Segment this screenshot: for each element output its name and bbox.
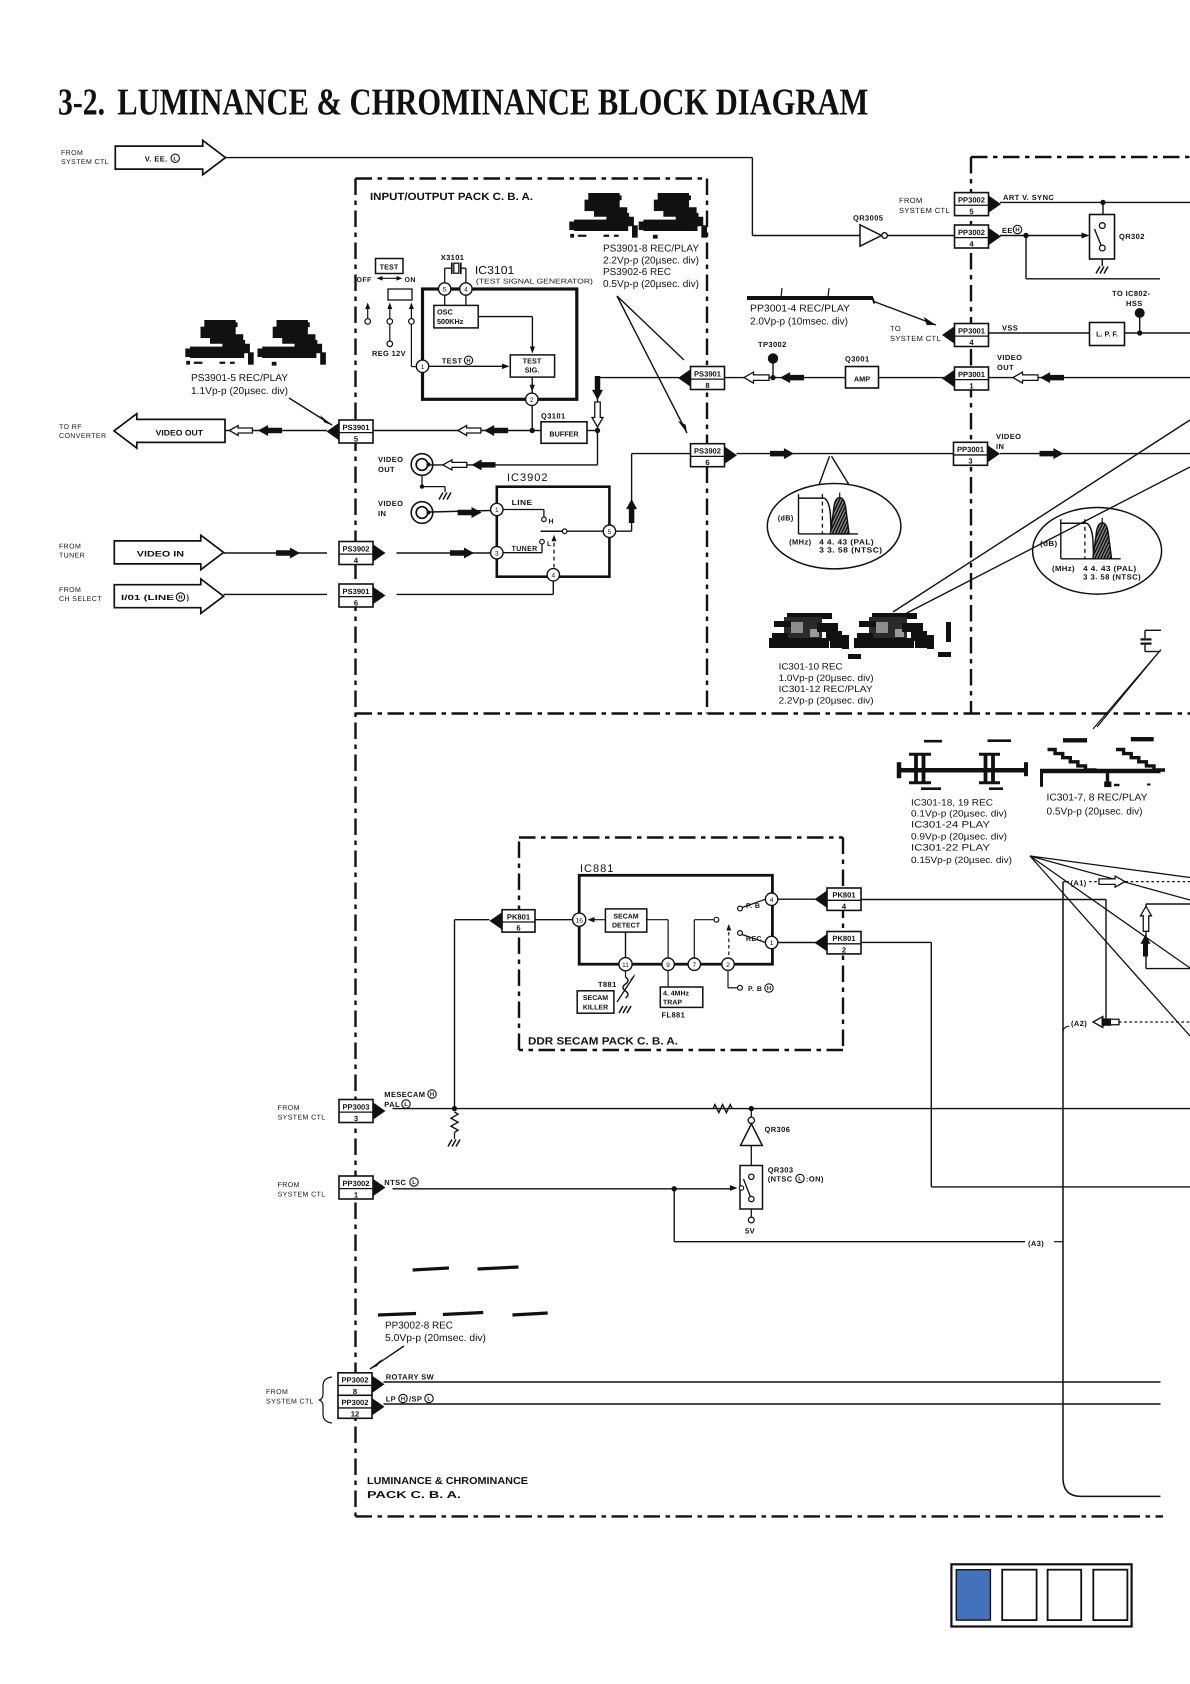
white arrow left A2 — [1093, 1017, 1119, 1028]
pin 1 IC881 — [765, 936, 777, 948]
wire pin2 to P.B(H) — [727, 971, 729, 988]
wire PS3902-4 to pin3 — [397, 552, 491, 554]
pin 5 IC3101 — [439, 283, 451, 295]
wire sd to pin9 — [647, 919, 668, 921]
pin 1 IC3902 — [491, 503, 503, 515]
svg-text:DDR SECAM PACK C. B. A.: DDR SECAM PACK C. B. A. — [528, 1036, 678, 1048]
connector PS3901 pin 5 — [327, 423, 340, 440]
junction dot QR306 — [749, 1106, 754, 1111]
svg-text:DETECT: DETECT — [612, 923, 641, 930]
svg-text:VIDEO: VIDEO — [997, 353, 1022, 362]
svg-text:IN: IN — [378, 509, 386, 518]
svg-text:ON: ON — [405, 277, 416, 284]
nav bar outline — [951, 1564, 1131, 1626]
wire pin1 to PK801-2 — [778, 942, 827, 944]
diagonal callout line a — [893, 420, 1190, 612]
svg-text:VIDEO: VIDEO — [378, 455, 403, 464]
svg-text:PACK C. B. A.: PACK C. B. A. — [367, 1490, 461, 1501]
wire V.EE to QR3005 — [224, 157, 752, 159]
svg-text:IN: IN — [996, 442, 1004, 451]
black arrow left row430 b — [484, 425, 508, 436]
nav square 3 — [1048, 1570, 1082, 1620]
pin 4 IC881 — [765, 893, 777, 905]
pin 1 IC3101 — [416, 360, 428, 372]
junction dot art v.sync — [1100, 200, 1105, 205]
black arrow left row430 a — [258, 425, 282, 436]
svg-text:PP3001: PP3001 — [958, 326, 986, 335]
svg-text:L: L — [173, 156, 177, 162]
inverter QR306 — [750, 1109, 752, 1117]
waveform dashes row1 — [413, 1268, 449, 1270]
svg-text:2: 2 — [842, 945, 846, 954]
svg-text:CH SELECT: CH SELECT — [59, 596, 102, 603]
svg-text:X3101: X3101 — [441, 253, 465, 262]
black arrow left row377 b — [1040, 372, 1064, 383]
capacitor (right edge) — [1145, 629, 1161, 631]
svg-text:6: 6 — [705, 458, 709, 467]
svg-text:H: H — [1015, 228, 1019, 234]
secam killer box — [577, 991, 614, 1013]
svg-text:TEST: TEST — [523, 357, 542, 366]
ground below QR302 — [1101, 259, 1103, 266]
connector PP3002 pin 8 — [372, 1376, 385, 1393]
wire PAL row — [393, 1108, 1190, 1110]
wire pin4 to PK801-4 — [778, 898, 827, 900]
svg-text:H: H — [401, 1397, 405, 1403]
svg-text:H: H — [178, 595, 182, 601]
svg-text:L: L — [404, 1102, 408, 1108]
svg-text:SYSTEM CTL: SYSTEM CTL — [61, 159, 109, 166]
capacitor callout lines — [1093, 653, 1158, 729]
junction dot TP3002 — [770, 375, 775, 380]
svg-text:CONVERTER: CONVERTER — [59, 433, 106, 440]
svg-text:2: 2 — [726, 962, 730, 969]
svg-text:FL881: FL881 — [662, 1011, 686, 1020]
5V supply — [750, 1209, 752, 1217]
ic box IC881 — [579, 875, 772, 964]
svg-text:PS3901: PS3901 — [342, 423, 370, 432]
svg-text:5.0Vp-p (20msec. div): 5.0Vp-p (20msec. div) — [385, 1333, 486, 1344]
svg-text:IC301-12 REC/PLAY: IC301-12 REC/PLAY — [779, 684, 873, 694]
svg-text:4: 4 — [464, 287, 468, 294]
nav square blue — [956, 1570, 990, 1620]
svg-text:H: H — [767, 986, 771, 992]
svg-text:PS3902: PS3902 — [694, 447, 721, 456]
junction dot to IC802 — [1137, 330, 1142, 335]
pin 5 IC3902 — [603, 525, 615, 537]
svg-text:PP3002: PP3002 — [958, 195, 985, 204]
svg-text:0.15Vp-p (20µsec. div): 0.15Vp-p (20µsec. div) — [911, 855, 1012, 865]
svg-text:INPUT/OUTPUT PACK C. B. A.: INPUT/OUTPUT PACK C. B. A. — [370, 191, 533, 203]
wire buffer to junction — [587, 430, 598, 432]
wire PS3901-8 to vertical — [598, 377, 680, 379]
wire with up arrows (right) — [1145, 904, 1147, 969]
svg-text:LP: LP — [386, 1395, 396, 1404]
wire pin16 to PK801-6 — [535, 919, 573, 921]
svg-text:4. 4MHz: 4. 4MHz — [663, 991, 690, 998]
svg-text:V. EE.: V. EE. — [145, 155, 168, 164]
svg-text:3 3. 58 (NTSC): 3 3. 58 (NTSC) — [1083, 573, 1141, 582]
wire EE to QR302 — [1000, 235, 1082, 237]
wire video out row — [724, 377, 1190, 379]
svg-text:/SP: /SP — [409, 1395, 422, 1404]
wire test sig down — [531, 377, 533, 430]
connector PP3002 pin 5 — [989, 195, 1002, 212]
wire junction to QR302 — [1102, 202, 1104, 214]
svg-text:(dB): (dB) — [778, 514, 794, 523]
svg-text:PK801: PK801 — [507, 912, 531, 921]
svg-text:L: L — [427, 1397, 431, 1403]
svg-text:H: H — [430, 1092, 434, 1098]
svg-text:(MHz): (MHz) — [789, 538, 811, 547]
connector PP3001 pin 3 — [988, 445, 1001, 462]
svg-text:FROM: FROM — [278, 1182, 300, 1189]
svg-text::ON): :ON) — [806, 1175, 824, 1184]
svg-text:(A2): (A2) — [1071, 1019, 1087, 1028]
wire QR3005 to PP3002-4 — [887, 235, 955, 237]
svg-text:T881: T881 — [598, 980, 617, 989]
waveform scribble PS3901-8 — [588, 193, 619, 202]
svg-text:3 3. 58 (NTSC): 3 3. 58 (NTSC) — [819, 545, 883, 554]
pin 16 IC881 — [573, 913, 586, 926]
input flag V.EE from system ctl — [115, 140, 225, 175]
white arrow down x597 — [592, 402, 603, 427]
svg-text:PK801: PK801 — [832, 934, 856, 943]
wire EE junction down-right — [1025, 236, 1027, 279]
svg-text:TO IC802-: TO IC802- — [1112, 289, 1151, 298]
svg-text:VIDEO: VIDEO — [996, 432, 1021, 441]
wire PK801-2 down — [861, 941, 931, 943]
svg-text:2.2Vp-p (20µsec. div): 2.2Vp-p (20µsec. div) — [603, 255, 699, 266]
svg-text:0.5Vp-p (20µsec. div): 0.5Vp-p (20µsec. div) — [1047, 807, 1143, 818]
svg-text:(A3): (A3) — [1028, 1239, 1044, 1248]
wire ART V.SYNC — [1000, 201, 1190, 203]
svg-text:6: 6 — [516, 924, 520, 933]
svg-text:FROM: FROM — [59, 544, 81, 551]
svg-text:4: 4 — [770, 897, 774, 904]
net label (A1) — [1063, 881, 1069, 883]
wire NTSC row — [393, 1188, 733, 1190]
black arrow right jackin — [458, 507, 482, 518]
svg-text:SYSTEM CTL: SYSTEM CTL — [278, 1192, 326, 1199]
wire rotary sw row — [384, 1381, 1161, 1383]
waveform dashes row2 — [378, 1314, 416, 1316]
svg-text:IC301-7, 8 REC/PLAY: IC301-7, 8 REC/PLAY — [1047, 793, 1148, 804]
svg-text:OUT: OUT — [378, 465, 395, 474]
svg-text:SYSTEM CTL: SYSTEM CTL — [890, 334, 941, 343]
connector PP3002 pin 1 — [373, 1179, 386, 1196]
ic box IC3101 — [423, 289, 577, 399]
wire VSS to LPF — [989, 332, 1090, 334]
svg-text:ROTARY SW: ROTARY SW — [386, 1373, 435, 1382]
svg-text:SYSTEM CTL: SYSTEM CTL — [278, 1115, 326, 1122]
black arrow right row553 b — [450, 548, 474, 559]
svg-text:5V: 5V — [745, 1227, 755, 1236]
svg-text:EE: EE — [1002, 226, 1013, 235]
svg-text:IC301-10 REC: IC301-10 REC — [779, 661, 843, 671]
svg-text:FROM: FROM — [278, 1105, 300, 1112]
svg-text:SYSTEM CTL: SYSTEM CTL — [899, 206, 950, 215]
luminance & chrominance pack bottom dashed border — [356, 1515, 1164, 1517]
svg-text:PP3001-4 REC/PLAY: PP3001-4 REC/PLAY — [750, 304, 850, 315]
wire pin5 up to PS3902-6 — [616, 530, 632, 532]
svg-text:OUT: OUT — [997, 363, 1014, 372]
luminance & chrominance pack left dashed border — [354, 179, 356, 1517]
resistor on PAL wire — [713, 1105, 732, 1113]
black arrow right row453 b — [1040, 448, 1064, 459]
oscillator OSC 500KHz — [444, 295, 446, 305]
white arrow up x1146 — [1141, 906, 1152, 931]
svg-text:FROM: FROM — [61, 150, 83, 157]
svg-text:PS3902-6 REC: PS3902-6 REC — [603, 267, 671, 278]
svg-text:L. P. F.: L. P. F. — [1096, 330, 1118, 339]
test slide switch — [388, 289, 412, 300]
wire A1 dotted — [1089, 881, 1190, 883]
svg-text:0.9Vp-p (20µsec. div): 0.9Vp-p (20µsec. div) — [911, 832, 1007, 842]
connector PS3901 pin 8 — [678, 369, 691, 386]
test switch contacts — [367, 305, 369, 319]
svg-text:2.2Vp-p (20µsec. div): 2.2Vp-p (20µsec. div) — [779, 696, 874, 706]
svg-text:PP3002: PP3002 — [342, 1179, 369, 1188]
response curve ellipse (right) — [1033, 508, 1162, 595]
wire PP3001-3 right — [1000, 453, 1190, 455]
svg-text:3: 3 — [354, 1114, 358, 1123]
svg-text:3: 3 — [968, 457, 972, 466]
callout arrow to PP3002-8 — [370, 1346, 404, 1369]
black arrow left row377 a — [780, 372, 804, 383]
svg-text:8: 8 — [705, 381, 709, 390]
svg-text:1.0Vp-p (20µsec. div): 1.0Vp-p (20µsec. div) — [779, 673, 874, 683]
nav square 4 — [1093, 1570, 1127, 1620]
svg-text:BUFFER: BUFFER — [549, 430, 579, 439]
svg-text:): ) — [187, 593, 190, 602]
connector PK801 pin 6 — [490, 912, 503, 929]
svg-text:(A1): (A1) — [1071, 878, 1087, 887]
svg-text:QR3005: QR3005 — [853, 214, 883, 223]
fan callout lines — [1030, 856, 1190, 878]
pin 9 IC881 — [662, 958, 674, 970]
svg-text:1: 1 — [421, 364, 425, 371]
wire flag to PS3902-4 — [224, 552, 327, 554]
svg-text:TRAP: TRAP — [663, 1000, 682, 1007]
svg-text:VSS: VSS — [1002, 324, 1018, 333]
diagonal callout line b — [905, 467, 1190, 614]
waveform pulses IC301-18 19 — [898, 768, 1027, 773]
black arrow up x1146 — [1141, 935, 1151, 957]
wire PS3901-6 to pin4 — [397, 593, 554, 595]
wire pin7 to wiper — [693, 920, 695, 958]
svg-text:OSC: OSC — [437, 308, 454, 317]
svg-text:TO: TO — [890, 324, 901, 333]
svg-text:2: 2 — [530, 397, 534, 404]
svg-text:IC301-24 PLAY: IC301-24 PLAY — [911, 820, 990, 830]
connector PP3001 pin 4 — [942, 326, 955, 343]
svg-text:PS3901-5 REC/PLAY: PS3901-5 REC/PLAY — [191, 373, 288, 384]
svg-text:PAL: PAL — [384, 1100, 400, 1109]
black arrow down x597 — [592, 376, 603, 400]
input flag I-01 LINE H — [114, 579, 223, 614]
svg-text:L: L — [798, 1177, 802, 1183]
svg-text:PS3902: PS3902 — [342, 544, 369, 553]
svg-text:3: 3 — [495, 550, 499, 557]
svg-text:FROM: FROM — [59, 587, 81, 594]
svg-text:(TEST SIGNAL GENERATOR): (TEST SIGNAL GENERATOR) — [476, 277, 593, 285]
ground between jacks — [421, 475, 423, 486]
inverter QR3005 — [860, 225, 882, 246]
callout arrow to PP3001-4 — [874, 302, 936, 326]
wire A3 — [673, 1189, 675, 1242]
svg-text:5: 5 — [443, 287, 447, 294]
svg-text:SECAM: SECAM — [613, 914, 638, 921]
ddr secam pack dashed border — [519, 836, 843, 838]
svg-text:1: 1 — [770, 940, 774, 947]
black arrow left jackout — [472, 459, 496, 470]
svg-text:TEST: TEST — [442, 357, 463, 366]
svg-text:PP3001: PP3001 — [957, 445, 985, 454]
contact P.B — [738, 906, 743, 911]
svg-text:L: L — [412, 1180, 416, 1186]
white arrow left jackout — [443, 460, 467, 470]
waveform scribble IC301-10 — [787, 613, 832, 619]
svg-text:PK801: PK801 — [832, 891, 856, 900]
ic box IC3902 — [497, 487, 610, 577]
svg-text:H: H — [466, 358, 470, 364]
wire jack video in to pin1 — [430, 511, 491, 513]
output flag VIDEO OUT — [114, 414, 225, 449]
white arrow left row377 b — [1013, 372, 1038, 383]
waveform bar PP3001-4 — [747, 296, 873, 300]
resistor to ground — [451, 1112, 458, 1132]
connector PP3003 pin 3 — [373, 1102, 386, 1119]
white arrow left row430 b — [458, 426, 481, 436]
svg-text:QR302: QR302 — [1119, 232, 1145, 241]
wire sd to pin11 — [625, 932, 627, 958]
wire jack video out — [430, 464, 598, 466]
svg-text:12: 12 — [351, 1410, 359, 1419]
white arrow right A1 — [1099, 876, 1125, 887]
junction dot A3 — [672, 1186, 677, 1191]
svg-text:Q3101: Q3101 — [541, 412, 566, 421]
svg-text:(NTSC: (NTSC — [768, 1175, 793, 1184]
switch contacts H L in IC3902 — [503, 509, 544, 511]
wire PS3902-6 to PP3001-3 — [737, 453, 954, 455]
svg-text:LUMINANCE & CHROMINANCE: LUMINANCE & CHROMINANCE — [367, 1476, 528, 1487]
svg-text:500KHz: 500KHz — [437, 317, 464, 326]
svg-text:PP3002-8 REC: PP3002-8 REC — [385, 1320, 453, 1331]
wire pin9 to trap — [667, 971, 669, 987]
svg-text:L: L — [547, 541, 552, 548]
contact REC — [738, 931, 743, 936]
connector PS3902 pin 4 — [373, 544, 386, 561]
black arrow up x631 — [626, 499, 637, 523]
svg-text:1: 1 — [495, 507, 499, 514]
svg-text:VIDEO: VIDEO — [378, 499, 403, 508]
pin 2 IC3101 — [526, 393, 538, 405]
svg-text:OFF: OFF — [357, 277, 373, 284]
wire lp-sp row — [384, 1403, 1161, 1405]
svg-text:2.0Vp-p (10msec. div): 2.0Vp-p (10msec. div) — [750, 317, 848, 328]
svg-text:PP3002: PP3002 — [341, 1398, 368, 1407]
svg-text:Q3001: Q3001 — [845, 355, 870, 364]
svg-text:4: 4 — [551, 572, 555, 579]
svg-text:KILLER: KILLER — [583, 1005, 608, 1012]
svg-text:FROM: FROM — [899, 196, 923, 205]
svg-text:ART V. SYNC: ART V. SYNC — [1003, 193, 1054, 202]
svg-text:(MHz): (MHz) — [1052, 564, 1075, 573]
svg-text:P. B: P. B — [748, 986, 762, 993]
pin 7 IC881 — [688, 958, 700, 970]
connector PP3002 pin 12 — [372, 1398, 385, 1415]
svg-text:QR303: QR303 — [768, 1166, 794, 1175]
svg-text:LINE: LINE — [512, 498, 533, 507]
svg-text:QR306: QR306 — [765, 1125, 791, 1134]
black arrow right row453 a — [770, 448, 794, 459]
svg-text:TO RF: TO RF — [59, 424, 82, 431]
wire LPF right — [1125, 332, 1190, 334]
connector PK801 pin 4 — [815, 891, 828, 908]
dashed wire to pin4 — [553, 539, 555, 568]
svg-text:PP3001: PP3001 — [958, 370, 986, 379]
waveform staircase IC301-7 8 — [1040, 769, 1161, 774]
junction dot resistor — [452, 1106, 457, 1111]
svg-text:PS3901-8 REC/PLAY: PS3901-8 REC/PLAY — [603, 243, 699, 254]
arrow secam detect to pin16 — [589, 919, 605, 921]
curly brace bottom — [319, 1377, 332, 1423]
svg-text:IC301-22 PLAY: IC301-22 PLAY — [911, 843, 990, 853]
test signal box TEST SIG. — [510, 355, 554, 377]
wire pin1 to test sig — [429, 365, 504, 367]
wire PK801-4 to A2 — [861, 899, 1106, 901]
svg-text:SYSTEM CTL: SYSTEM CTL — [266, 1399, 314, 1406]
svg-text:9: 9 — [666, 962, 670, 969]
svg-text:VIDEO OUT: VIDEO OUT — [156, 429, 203, 438]
wire flag to PS3901-5 — [225, 430, 327, 432]
pin 3 IC3902 — [491, 547, 503, 559]
pin 11 IC881 — [619, 958, 632, 971]
dashed switch arm pin2 — [728, 927, 730, 955]
connector PS3901 pin 6 — [373, 587, 386, 604]
junction dot pin2 wire — [530, 428, 535, 433]
switch QR303 — [750, 1146, 752, 1166]
wire PK801-6 down to PAL — [455, 919, 490, 921]
svg-text:1.1Vp-p (20µsec. div): 1.1Vp-p (20µsec. div) — [191, 386, 288, 397]
svg-text:PS3901: PS3901 — [342, 587, 370, 596]
svg-text:IC3101: IC3101 — [475, 265, 514, 277]
label TEST boxed — [376, 259, 404, 274]
wire PS3901-5 to buffer — [373, 430, 541, 432]
wire net A1 vertical — [1062, 882, 1064, 1478]
luminance & chrominance pack top dashed border — [356, 712, 1190, 714]
svg-text:PS3901: PS3901 — [694, 369, 722, 378]
svg-text:3-2.: 3-2. — [58, 82, 105, 124]
svg-text:TEST: TEST — [380, 263, 399, 272]
pin 4 IC3101 — [460, 283, 472, 295]
svg-text:AMP: AMP — [854, 375, 870, 384]
right pack dashed border — [971, 156, 1190, 158]
svg-text:PP3003: PP3003 — [342, 1102, 369, 1111]
svg-text:0.5Vp-p (20µsec. div): 0.5Vp-p (20µsec. div) — [603, 279, 699, 290]
svg-text:0.1Vp-p (20µsec. div): 0.1Vp-p (20µsec. div) — [911, 809, 1007, 819]
svg-text:PP3002: PP3002 — [958, 228, 985, 237]
svg-text:16: 16 — [576, 917, 584, 924]
junction dot EE — [1023, 233, 1028, 238]
lowpass filter L.P.F. — [1090, 323, 1125, 346]
white arrow left row377 a — [744, 372, 769, 383]
wire osc to test sig — [478, 316, 532, 318]
svg-text:TUNER: TUNER — [59, 553, 85, 560]
svg-text:IC3902: IC3902 — [507, 472, 548, 484]
svg-text:LUMINANCE & CHROMINANCE BLOCK: LUMINANCE & CHROMINANCE BLOCK DIAGRAM — [117, 82, 868, 124]
